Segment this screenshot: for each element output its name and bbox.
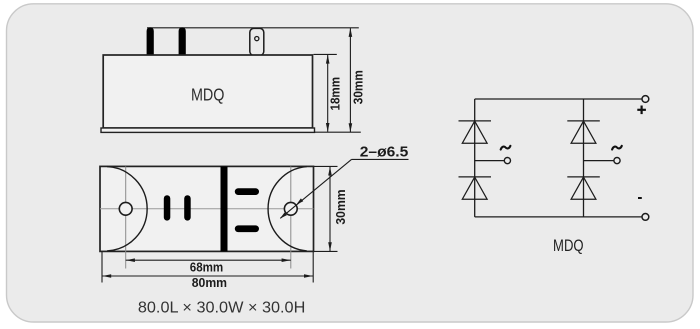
tab hole	[255, 37, 259, 41]
diode D3	[567, 121, 600, 143]
svg-text:MDQ: MDQ	[191, 85, 225, 105]
horizontal slot top	[235, 188, 259, 195]
dim line 30mm (top view)	[329, 167, 331, 251]
horizontal slot bottom	[235, 225, 259, 232]
left arc	[107, 167, 147, 251]
pin 2	[179, 27, 186, 55]
vertical slot 2	[184, 195, 191, 220]
extension line base bottom	[314, 131, 361, 133]
tilde left	[501, 146, 511, 150]
diode D2	[459, 177, 492, 199]
center black bar	[221, 166, 228, 251]
base plate	[101, 128, 315, 132]
extension lines 30mm right	[314, 165, 338, 167]
wire bottom rail	[475, 216, 642, 218]
horizontal centerline	[100, 208, 314, 210]
plus sign	[637, 106, 646, 115]
wire left branch	[474, 99, 476, 217]
diode D1	[459, 121, 492, 143]
terminal -	[642, 214, 649, 221]
svg-text:80.0L × 30.0W × 30.0H: 80.0L × 30.0W × 30.0H	[138, 299, 306, 316]
wire ac tap right	[584, 160, 614, 162]
extension lines 80mm	[101, 252, 103, 283]
vertical centerline right	[290, 166, 292, 268]
vertical slot 1	[164, 195, 171, 220]
extension line, pins top (30mm)	[147, 27, 359, 29]
extension line box top (18mm)	[314, 53, 337, 55]
wire top rail	[475, 98, 642, 100]
svg-text:30mm: 30mm	[334, 189, 348, 224]
terminal ac right	[614, 158, 620, 164]
svg-text:30mm: 30mm	[352, 70, 366, 104]
wire ac tap left	[475, 160, 505, 162]
vertical centerline left	[125, 166, 127, 268]
dim line 68mm	[126, 259, 291, 261]
svg-text:18mm: 18mm	[328, 77, 342, 111]
terminal +	[642, 96, 649, 103]
terminal ac left	[504, 158, 510, 164]
left hole	[119, 202, 132, 215]
minus sign	[638, 197, 642, 199]
svg-text:68mm: 68mm	[190, 261, 224, 275]
svg-text:MDQ: MDQ	[553, 237, 584, 255]
terminal tab	[250, 28, 264, 55]
tilde right	[612, 146, 622, 150]
module body	[103, 55, 312, 128]
diode D4	[567, 177, 600, 199]
svg-text:2–ø6.5: 2–ø6.5	[360, 143, 409, 160]
wire middle branch	[583, 99, 585, 217]
pin 1	[147, 27, 154, 55]
right arc	[268, 167, 307, 251]
svg-text:80mm: 80mm	[192, 276, 227, 290]
right hole	[284, 202, 297, 215]
leader 2-o6.5	[352, 158, 409, 160]
body outline	[100, 166, 314, 251]
dim line 18mm	[327, 55, 329, 132]
dim line 80mm	[102, 275, 313, 277]
dim line 30mm	[349, 28, 351, 132]
